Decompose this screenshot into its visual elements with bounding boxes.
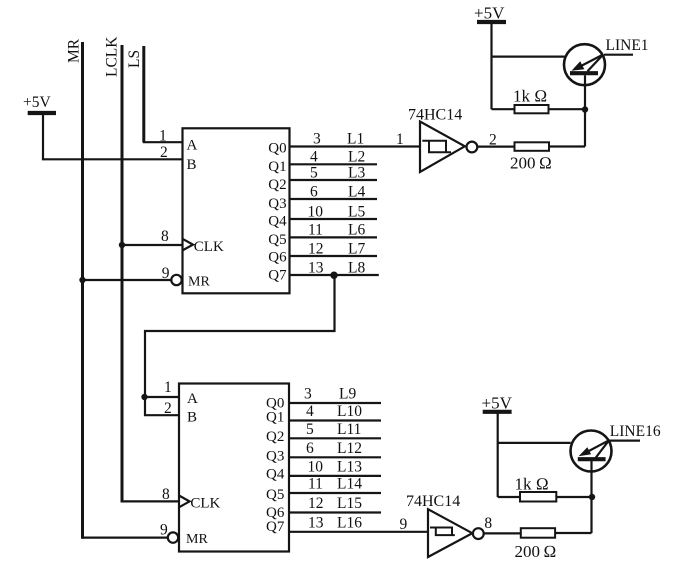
svg-text:MR: MR xyxy=(188,275,210,290)
svg-text:74HC14: 74HC14 xyxy=(408,107,462,124)
svg-text:9: 9 xyxy=(160,522,168,539)
svg-text:13: 13 xyxy=(308,514,324,531)
svg-text:4: 4 xyxy=(306,403,314,420)
svg-text:LINE16: LINE16 xyxy=(610,423,661,440)
svg-text:6: 6 xyxy=(310,184,318,201)
svg-text:L13: L13 xyxy=(337,458,362,475)
svg-text:L16: L16 xyxy=(337,514,362,531)
svg-text:8: 8 xyxy=(162,486,170,503)
svg-text:L9: L9 xyxy=(339,386,356,403)
svg-text:2: 2 xyxy=(160,144,168,161)
svg-text:L1: L1 xyxy=(347,131,364,148)
svg-text:L2: L2 xyxy=(348,149,365,166)
svg-text:Q2: Q2 xyxy=(266,429,284,445)
svg-text:+5V: +5V xyxy=(23,94,51,111)
svg-text:L3: L3 xyxy=(348,165,365,182)
svg-text:L4: L4 xyxy=(348,184,365,201)
svg-text:5: 5 xyxy=(306,421,314,438)
svg-text:1: 1 xyxy=(396,131,404,148)
svg-text:200 Ω: 200 Ω xyxy=(515,542,557,561)
svg-text:MR: MR xyxy=(66,38,83,63)
svg-text:10: 10 xyxy=(308,458,324,475)
svg-text:74HC14: 74HC14 xyxy=(406,493,460,510)
svg-text:L6: L6 xyxy=(348,222,365,239)
svg-text:1k Ω: 1k Ω xyxy=(515,475,549,494)
svg-text:1: 1 xyxy=(159,127,167,144)
svg-text:B: B xyxy=(187,157,197,173)
svg-text:Q0: Q0 xyxy=(268,141,286,157)
svg-text:L8: L8 xyxy=(348,260,365,277)
svg-text:Q3: Q3 xyxy=(268,196,286,212)
svg-text:A: A xyxy=(187,138,198,154)
svg-text:L14: L14 xyxy=(337,476,362,493)
svg-text:L11: L11 xyxy=(337,421,361,438)
svg-text:Q5: Q5 xyxy=(266,487,284,503)
svg-text:12: 12 xyxy=(308,495,324,512)
svg-text:8: 8 xyxy=(484,515,492,532)
svg-text:B: B xyxy=(187,410,197,426)
svg-text:Q5: Q5 xyxy=(268,232,286,248)
svg-text:11: 11 xyxy=(308,222,323,239)
svg-text:Q2: Q2 xyxy=(268,177,286,193)
svg-text:200 Ω: 200 Ω xyxy=(510,154,552,173)
svg-text:+5V: +5V xyxy=(482,394,513,413)
svg-text:1: 1 xyxy=(164,379,172,396)
svg-text:3: 3 xyxy=(304,386,312,403)
svg-text:MR: MR xyxy=(186,532,208,547)
svg-text:9: 9 xyxy=(162,265,170,282)
svg-text:6: 6 xyxy=(306,440,314,457)
svg-text:Q1: Q1 xyxy=(268,159,286,175)
svg-text:8: 8 xyxy=(161,228,169,245)
svg-text:Q6: Q6 xyxy=(268,250,287,266)
svg-text:13: 13 xyxy=(308,260,324,277)
svg-text:L5: L5 xyxy=(348,204,365,221)
svg-text:Q4: Q4 xyxy=(268,214,287,230)
svg-text:Q7: Q7 xyxy=(268,268,287,284)
svg-text:2: 2 xyxy=(489,132,497,149)
svg-text:LS: LS xyxy=(126,50,143,68)
svg-text:Q4: Q4 xyxy=(266,466,285,482)
svg-text:5: 5 xyxy=(310,165,318,182)
svg-text:2: 2 xyxy=(164,400,172,417)
svg-text:CLK: CLK xyxy=(190,496,220,512)
svg-text:LCLK: LCLK xyxy=(104,36,121,77)
svg-text:L12: L12 xyxy=(337,440,362,457)
svg-text:Q3: Q3 xyxy=(266,448,284,464)
svg-text:10: 10 xyxy=(308,204,324,221)
svg-text:A: A xyxy=(187,391,198,407)
svg-text:Q7: Q7 xyxy=(266,519,285,535)
svg-text:L10: L10 xyxy=(337,403,362,420)
svg-text:4: 4 xyxy=(310,149,318,166)
svg-text:+5V: +5V xyxy=(474,4,505,23)
svg-text:1k Ω: 1k Ω xyxy=(513,87,547,106)
svg-text:11: 11 xyxy=(308,476,323,493)
svg-text:CLK: CLK xyxy=(194,239,224,255)
svg-text:LINE1: LINE1 xyxy=(606,37,649,54)
svg-text:9: 9 xyxy=(400,516,408,533)
svg-text:L7: L7 xyxy=(348,241,365,258)
svg-text:L15: L15 xyxy=(337,495,362,512)
svg-text:12: 12 xyxy=(308,241,324,258)
svg-text:3: 3 xyxy=(313,131,321,148)
svg-text:Q1: Q1 xyxy=(266,410,284,426)
